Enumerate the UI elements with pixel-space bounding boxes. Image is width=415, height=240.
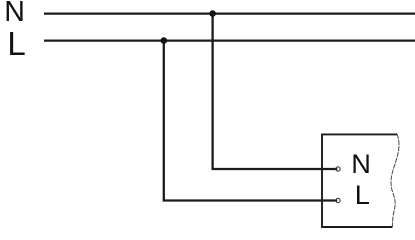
svg-text:L: L xyxy=(7,25,25,62)
svg-text:N: N xyxy=(351,148,371,179)
wire line bus xyxy=(44,39,415,41)
appliance box outline xyxy=(322,134,397,227)
wire neutral bus xyxy=(44,12,415,14)
wire neutral branch xyxy=(212,168,338,170)
wire line branch xyxy=(163,199,338,201)
wire line drop xyxy=(163,41,165,201)
svg-text:N: N xyxy=(4,0,25,28)
terminal N xyxy=(336,167,340,171)
terminal L xyxy=(336,198,340,202)
appliance torn edge xyxy=(391,134,399,227)
wire neutral drop xyxy=(211,14,213,169)
junction line tap xyxy=(161,37,168,44)
junction neutral tap xyxy=(209,10,216,17)
svg-text:L: L xyxy=(355,179,370,210)
